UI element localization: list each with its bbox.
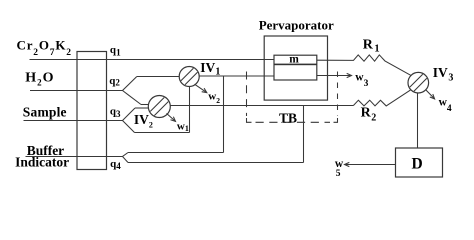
svg-text:q3: q3	[110, 106, 121, 119]
waste arrow w1 from IV2	[167, 113, 176, 121]
waste arrow w4 from IV3	[426, 90, 435, 99]
node q2 fork	[123, 77, 142, 105]
svg-text:w4: w4	[439, 97, 452, 114]
thermostatic bath TB bottom-right corner	[334, 118, 338, 122]
wire sample loop horizontal	[135, 132, 190, 134]
svg-text:w1: w1	[177, 121, 189, 134]
thermostatic bath TB dashed left edge	[246, 72, 248, 117]
svg-text:w3: w3	[355, 72, 368, 89]
wire Sample supply	[24, 120, 123, 122]
valve IV3 circle	[408, 72, 429, 93]
thermostatic bath TB bottom-left corner	[247, 118, 252, 122]
svg-text:w2: w2	[208, 91, 220, 105]
valve IV2 circle	[148, 96, 170, 118]
coil R1 zigzag and wire to IV3	[317, 55, 411, 76]
wire IV3 to detector	[417, 93, 419, 148]
svg-text:Sample: Sample	[23, 104, 67, 119]
wire sample loop vertical to IV1	[189, 86, 191, 132]
svg-text:Indicator: Indicator	[15, 154, 69, 169]
node q3 fork	[123, 108, 136, 133]
wire confluence vertical to R2 line	[303, 106, 305, 163]
pump P (proportioning pump rectangle)	[77, 52, 107, 170]
membrane divider	[274, 64, 317, 66]
svg-text:IV2: IV2	[134, 112, 153, 129]
pervaporator outer box	[264, 36, 327, 100]
svg-text:R1: R1	[363, 37, 380, 54]
wire q2 upper branch to IV1	[137, 76, 179, 78]
wire Buffer/Indicator supply	[26, 156, 123, 158]
waste arrow w2 from IV1	[195, 84, 207, 92]
reagent line Cr2O7K2 wire (to pervaporator upper channel)	[30, 59, 275, 61]
node q4 fork	[123, 153, 129, 163]
valve IV1 circle	[179, 67, 199, 87]
svg-text:w5: w5	[335, 158, 344, 179]
svg-text:m: m	[289, 54, 299, 66]
svg-text:Cr2O7K2: Cr2O7K2	[17, 38, 72, 59]
coil R2 zigzag and wire to IV3	[353, 90, 410, 106]
wire IV2 inlet upper	[141, 104, 149, 106]
svg-text:q2: q2	[109, 75, 120, 88]
svg-text:q4: q4	[110, 158, 121, 171]
svg-text:Pervaporator: Pervaporator	[259, 17, 334, 32]
wire q4 upper branch horizontal	[128, 152, 224, 154]
detector D box	[396, 148, 443, 177]
thermostatic bath TB dashed bottom edge	[256, 121, 331, 123]
svg-text:IV3: IV3	[433, 65, 454, 84]
svg-text:H2O: H2O	[25, 71, 54, 88]
wire IV1 outlet to pervaporator lower channel	[199, 75, 274, 77]
membrane module m box	[274, 55, 317, 80]
svg-text:IV1: IV1	[200, 60, 220, 77]
svg-text:TB: TB	[279, 110, 297, 125]
waste arrow w5 from detector	[345, 162, 396, 166]
wire IV2 inlet lower	[135, 107, 149, 109]
thermostatic bath TB dashed right edge	[337, 72, 339, 117]
wire H2O supply	[30, 90, 123, 92]
wire q4 lower branch horizontal	[128, 162, 304, 164]
svg-text:D: D	[412, 155, 423, 172]
svg-text:q1: q1	[110, 44, 121, 58]
waste arrow w3 from pervaporator lower channel	[317, 73, 352, 77]
svg-text:R2: R2	[361, 106, 377, 124]
wire IV2 outlet to coil R2	[170, 105, 353, 107]
wire confluence vertical to IV1 outlet	[223, 76, 225, 153]
